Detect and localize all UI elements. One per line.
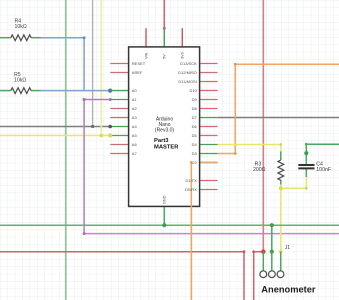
svg-text:RESET: RESET (132, 61, 146, 66)
svg-text:3V3: 3V3 (181, 52, 185, 59)
svg-text:D7: D7 (192, 115, 198, 120)
junction: purple bendpoint (83, 98, 86, 101)
orange overlay wire on D2 stub (191, 162, 217, 164)
junction: green dots J1 pin2 (270, 223, 274, 227)
junction: gray dot at A4 pin (108, 125, 112, 129)
wire: green vertical to J1 pin2 (271, 225, 273, 252)
junction: yellow bendpoint (100, 134, 104, 138)
svg-text:A7: A7 (132, 151, 138, 156)
svg-text:D8: D8 (192, 106, 198, 111)
svg-text:(Rev3.0): (Rev3.0) (155, 128, 175, 134)
svg-text:VIN: VIN (144, 52, 148, 59)
wire: green C4 top to right edge (306, 144, 339, 153)
IC left pin stubs (110, 64, 128, 154)
IC top pin labels rotated (144, 52, 184, 59)
wire: green ground rail (0, 224, 339, 226)
junction: green bendpoint (305, 143, 308, 146)
wire: long green vertical bus (65, 0, 67, 300)
junction: blue bendpoint (83, 36, 86, 39)
svg-text:D3: D3 (192, 151, 198, 156)
junction: red bendpoints (243, 250, 246, 253)
junction: yellow dot R3 bottom (279, 186, 283, 190)
orange wire crossing IC (drawn over body) (190, 163, 192, 300)
wire: long red vertical to J1 pin1 (262, 0, 264, 252)
resistor R5 body (11, 88, 31, 94)
wire: orange from D2 down to bottom edge (191, 163, 217, 300)
wire: yellow from D4 to R3 top (218, 145, 281, 153)
wire: yellow R3 bottom to C4 bottom and J1 pin3 (281, 176, 307, 252)
svg-text:A3: A3 (132, 115, 138, 120)
connector J1 leads (262, 252, 264, 271)
wire: gray horizontal A4 row (0, 126, 110, 128)
IC left pin labels (132, 61, 146, 156)
svg-text:Anenometer: Anenometer (261, 285, 316, 295)
svg-text:5V: 5V (163, 54, 167, 59)
wire: red 5V from top edge (163, 0, 165, 28)
svg-text:200Ω: 200Ω (253, 167, 266, 173)
svg-text:A0: A0 (132, 88, 138, 93)
capacitor C4 top lead (305, 153, 307, 164)
svg-text:D12/MISO: D12/MISO (178, 70, 197, 75)
resistor R3 leads (280, 152, 282, 161)
svg-text:A4: A4 (132, 124, 138, 129)
connector J1 sockets (260, 271, 267, 278)
svg-text:D13/SCK: D13/SCK (180, 61, 197, 66)
wire: gray vertical to A4 (92, 0, 94, 127)
junction: yellow bendpoints (279, 143, 282, 146)
wire: red from J1 pin1 to bottom edge (254, 252, 264, 300)
svg-text:A2: A2 (132, 106, 138, 111)
wire: GND pin stub (163, 206, 165, 225)
junction: green dot C4 top (304, 151, 308, 155)
capacitor C4 plates (298, 164, 314, 166)
wire: purple from A1 down and right (84, 100, 110, 234)
junction: yellow dot at A5 pin (108, 134, 112, 138)
svg-text:100nF: 100nF (316, 167, 331, 173)
wire: yellow vertical to A5 (100, 0, 102, 136)
svg-text:AREF: AREF (132, 70, 143, 75)
svg-text:GND: GND (163, 195, 167, 204)
junction: purple bendpoint (83, 232, 86, 235)
svg-text:A5: A5 (132, 133, 138, 138)
IC right pin stubs (200, 64, 218, 190)
wire: red bottom-left to bottom edge (0, 252, 244, 300)
resistor R3 body (278, 160, 284, 180)
resistor R4 leads (0, 37, 11, 39)
svg-text:MASTER: MASTER (154, 145, 179, 151)
svg-text:D1/TX: D1/TX (185, 178, 197, 183)
capacitor C4 bottom lead (305, 169, 307, 177)
junction: orange bendpoints (234, 63, 237, 66)
junction: green dot GND (162, 223, 166, 227)
IC center labels (155, 117, 175, 134)
svg-text:D10: D10 (189, 88, 197, 93)
svg-text:A1: A1 (132, 97, 138, 102)
junction: red dot J1 pin1 (261, 249, 266, 254)
svg-text:A6: A6 (132, 142, 138, 147)
IC body: Arduino Nano Part3 MASTER (129, 47, 200, 207)
IC right pin labels (178, 61, 197, 192)
svg-text:D4: D4 (192, 142, 198, 147)
svg-text:D0/RX: D0/RX (185, 187, 197, 192)
svg-text:D9: D9 (192, 97, 198, 102)
svg-text:D6: D6 (192, 124, 198, 129)
svg-text:10kΩ: 10kΩ (15, 24, 27, 30)
IC top pin stubs: VIN red, 5V green, 3V3 red (145, 28, 147, 47)
svg-text:10kΩ: 10kΩ (14, 78, 26, 84)
wire: purple horizontal rail to right edge (84, 233, 339, 235)
wire: orange from D3 up to right edge (218, 64, 339, 153)
wire: yellow horizontal A5 row (0, 135, 110, 137)
wire: blue from R4/R5 to A0 (41, 38, 110, 91)
junction: gray bendpoint (91, 125, 94, 128)
junction: blue dot at A0 pin (108, 89, 112, 93)
resistor R4 body (11, 35, 31, 41)
svg-text:D11/MOSI: D11/MOSI (178, 79, 196, 84)
resistor R5 leads (0, 90, 11, 92)
wire: gray from D7 to right edge (218, 117, 339, 119)
svg-text:D5: D5 (192, 133, 198, 138)
svg-text:J1: J1 (285, 245, 291, 251)
svg-text:Part3: Part3 (154, 138, 169, 144)
